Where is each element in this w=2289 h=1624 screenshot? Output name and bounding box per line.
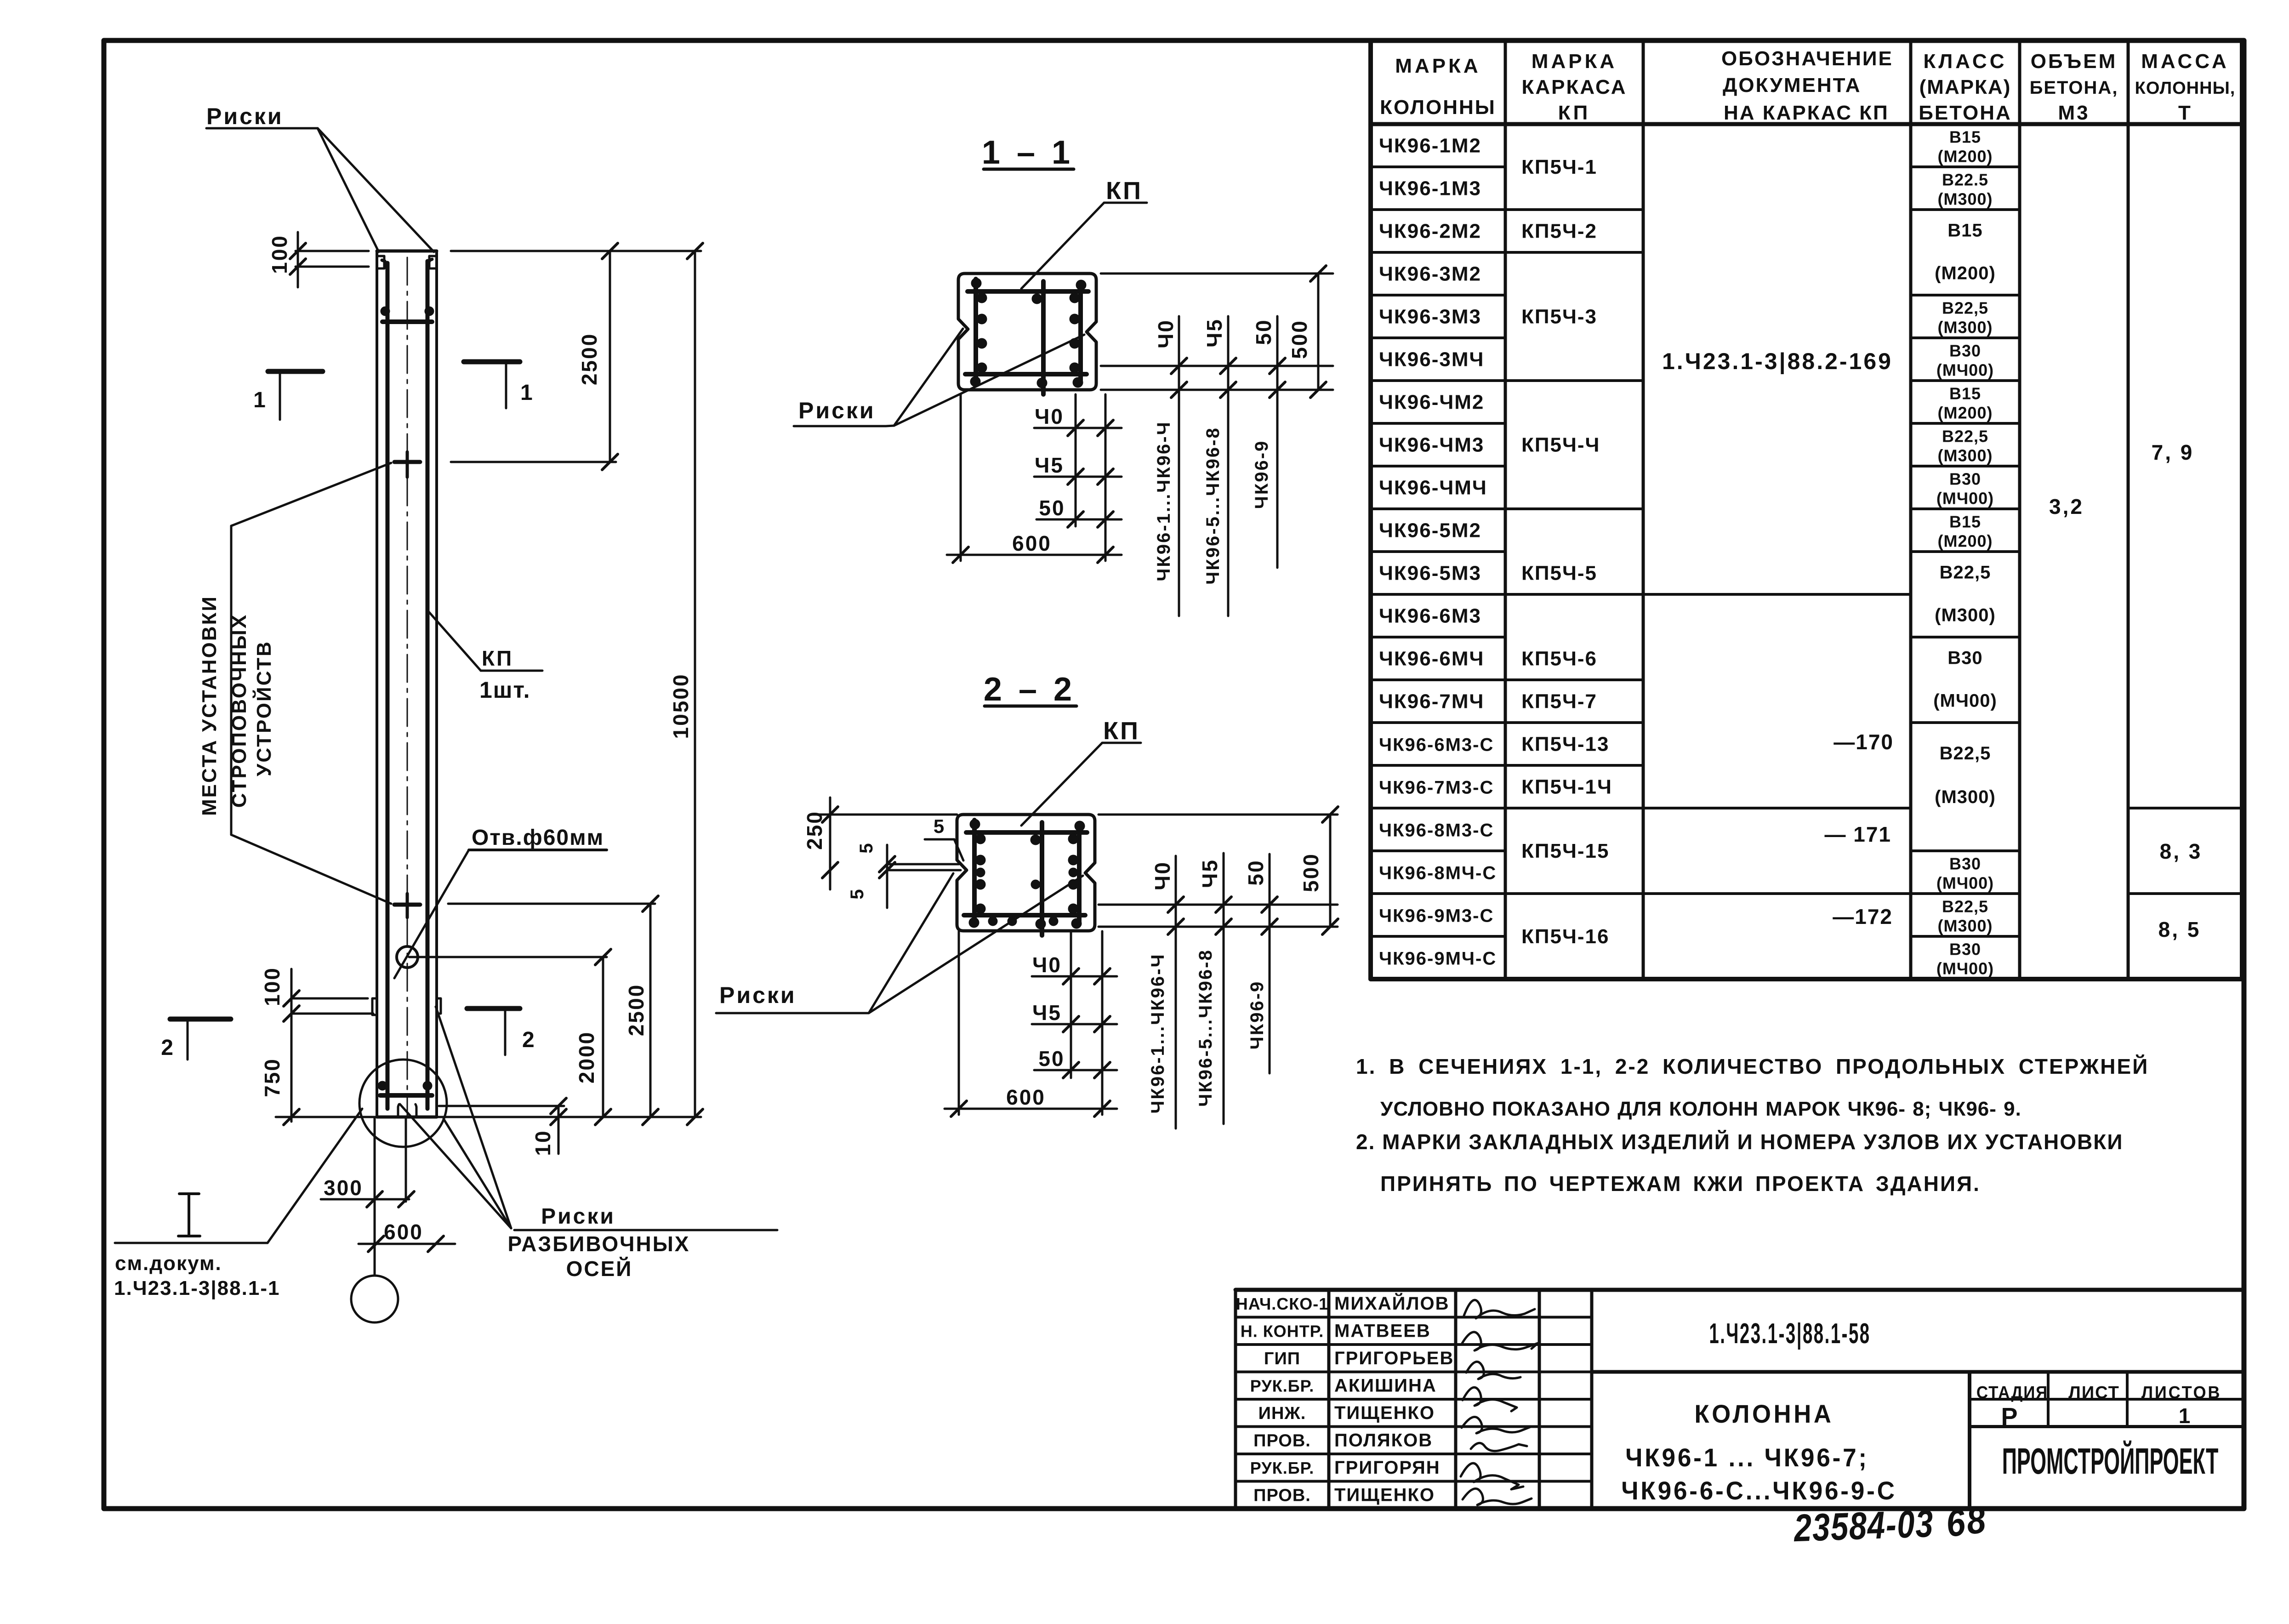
svg-text:ПРОВ.: ПРОВ. xyxy=(1253,1486,1311,1505)
svg-text:(М300): (М300) xyxy=(1937,917,1993,935)
svg-text:КОЛОННЫ,: КОЛОННЫ, xyxy=(2135,79,2236,98)
svg-text:Риски: Риски xyxy=(798,398,876,423)
svg-text:ЧК96-6М3: ЧК96-6М3 xyxy=(1379,605,1481,627)
svg-text:КП5Ч-2: КП5Ч-2 xyxy=(1521,220,1597,243)
svg-text:КП5Ч-1Ч: КП5Ч-1Ч xyxy=(1521,776,1612,798)
svg-text:КАРКАСА: КАРКАСА xyxy=(1522,76,1627,98)
bottom cross bar xyxy=(380,1093,432,1098)
svg-text:МИХАЙЛОВ: МИХАЙЛОВ xyxy=(1334,1293,1449,1314)
svg-text:50: 50 xyxy=(1252,319,1275,345)
svg-text:Риски: Риски xyxy=(206,103,284,129)
svg-text:ЧК96-7М3-С: ЧК96-7М3-С xyxy=(1379,778,1494,798)
svg-text:(М200): (М200) xyxy=(1937,404,1993,422)
dim 2500 upper xyxy=(609,251,611,462)
svg-text:НАЧ.СКО-1: НАЧ.СКО-1 xyxy=(1236,1294,1329,1313)
svg-text:8, 3: 8, 3 xyxy=(2160,839,2203,863)
svg-text:ДОКУМЕНТА: ДОКУМЕНТА xyxy=(1723,74,1862,97)
svg-text:2. МАРКИ ЗАКЛАДНЫХ ИЗДЕЛИЙ: 2. МАРКИ ЗАКЛАДНЫХ ИЗДЕЛИЙ И НОМЕРА УЗЛО… xyxy=(1356,1130,2123,1154)
svg-text:ПРОМСТРОЙПРОЕКТ: ПРОМСТРОЙПРОЕКТ xyxy=(2002,1440,2219,1482)
svg-text:2000: 2000 xyxy=(575,1031,598,1083)
svg-text:ЧК96-5М2: ЧК96-5М2 xyxy=(1379,519,1481,542)
section 1-1 right extension lines xyxy=(1101,273,1333,275)
svg-text:1: 1 xyxy=(253,388,267,412)
section 1-1 bottom extension lines xyxy=(960,394,962,561)
svg-text:50: 50 xyxy=(1039,496,1065,520)
svg-text:(МЧ00): (МЧ00) xyxy=(1936,489,1994,508)
dim 600 s2 xyxy=(945,1108,1117,1110)
svg-text:ЧК96-6МЧ: ЧК96-6МЧ xyxy=(1379,648,1484,670)
dim 45 right s1 xyxy=(1227,316,1230,616)
svg-text:БЕТОНА,: БЕТОНА, xyxy=(2030,78,2118,98)
dim 10 xyxy=(558,1106,560,1154)
svg-text:В15: В15 xyxy=(1947,221,1982,241)
svg-text:10: 10 xyxy=(531,1129,555,1156)
svg-text:Ч0: Ч0 xyxy=(1032,953,1062,977)
svg-text:В22,5: В22,5 xyxy=(1940,743,1991,764)
svg-text:ТИЩЕНКО: ТИЩЕНКО xyxy=(1334,1403,1435,1423)
section 2-2 right extension lines xyxy=(1099,814,1338,816)
svg-text:ЧК96-8М3-С: ЧК96-8М3-С xyxy=(1379,821,1494,841)
dim 45 bottom s1 xyxy=(1034,476,1122,478)
svg-text:ЧК96-ЧМ2: ЧК96-ЧМ2 xyxy=(1379,391,1484,414)
svg-text:КП5Ч-Ч: КП5Ч-Ч xyxy=(1521,434,1600,456)
dim 2000 xyxy=(602,957,604,1117)
svg-text:В15: В15 xyxy=(1949,513,1981,531)
strop device mark lower xyxy=(394,903,420,907)
strop device mark upper xyxy=(394,460,420,464)
dim 50 bottom s1 xyxy=(1036,519,1122,521)
svg-text:КП5Ч-3: КП5Ч-3 xyxy=(1521,306,1597,328)
top riska notches xyxy=(378,256,384,268)
svg-text:Р: Р xyxy=(2001,1403,2018,1430)
dim 2500 lower xyxy=(649,904,652,1117)
title block grid xyxy=(1236,1288,2242,1292)
svg-text:(МЧ00): (МЧ00) xyxy=(1933,691,1997,711)
svg-text:2500: 2500 xyxy=(624,984,648,1036)
svg-text:В22,5: В22,5 xyxy=(1942,299,1988,318)
svg-text:ЧК96-3М2: ЧК96-3М2 xyxy=(1379,263,1481,285)
svg-text:23584-03: 23584-03 xyxy=(1793,1502,1935,1550)
svg-text:ЧК96-5М3: ЧК96-5М3 xyxy=(1379,562,1481,585)
svg-text:500: 500 xyxy=(1299,853,1323,892)
svg-text:2: 2 xyxy=(522,1028,536,1052)
svg-text:(МАРКА): (МАРКА) xyxy=(1919,76,2011,98)
svg-text:В30: В30 xyxy=(1947,648,1982,668)
svg-text:см.докум.: см.докум. xyxy=(115,1252,222,1275)
svg-text:Ч5: Ч5 xyxy=(1198,859,1222,888)
svg-text:1.Ч23.1-3|88.2-169: 1.Ч23.1-3|88.2-169 xyxy=(1662,348,1893,375)
svg-text:5: 5 xyxy=(934,815,945,837)
svg-text:10500: 10500 xyxy=(669,673,693,739)
svg-text:ЧК96-8МЧ-С: ЧК96-8МЧ-С xyxy=(1379,863,1497,883)
section cage 1-1 xyxy=(974,279,978,380)
svg-text:В30: В30 xyxy=(1949,855,1981,873)
svg-text:1.Ч23.1-3|88.1-1: 1.Ч23.1-3|88.1-1 xyxy=(114,1277,280,1300)
svg-text:(М300): (М300) xyxy=(1937,318,1993,337)
svg-text:(МЧ00): (МЧ00) xyxy=(1936,959,1994,978)
svg-text:(М300): (М300) xyxy=(1937,190,1993,209)
svg-text:Риски: Риски xyxy=(719,982,797,1008)
column centerline xyxy=(407,257,408,1117)
hole 60mm xyxy=(397,946,418,968)
svg-text:В15: В15 xyxy=(1949,384,1981,403)
section mark 2 left xyxy=(170,1017,231,1022)
svg-text:В15: В15 xyxy=(1949,128,1981,147)
dim 100 top xyxy=(296,250,369,252)
svg-text:УСТРОЙСТВ: УСТРОЙСТВ xyxy=(252,640,275,776)
svg-text:ЧК96-1...ЧК96-Ч: ЧК96-1...ЧК96-Ч xyxy=(1154,421,1174,581)
svg-text:2500: 2500 xyxy=(577,333,601,385)
svg-text:В22,5: В22,5 xyxy=(1942,427,1988,446)
svg-text:Ч0: Ч0 xyxy=(1154,319,1178,348)
dim 600 s1 xyxy=(947,554,1122,556)
svg-text:СТАДИЯ: СТАДИЯ xyxy=(1976,1383,2048,1402)
section mark 1 right xyxy=(464,359,520,365)
mid riska notch right xyxy=(437,998,441,1014)
section outline 1-1 xyxy=(958,274,1096,390)
svg-text:КП5Ч-6: КП5Ч-6 xyxy=(1521,648,1597,670)
dim 50 bottom s2 xyxy=(1034,1069,1117,1071)
svg-text:КП5Ч-5: КП5Ч-5 xyxy=(1521,562,1597,585)
dim 600 elevation xyxy=(359,1243,455,1245)
svg-text:МАРКА: МАРКА xyxy=(1532,50,1617,73)
svg-text:В22,5: В22,5 xyxy=(1942,897,1988,916)
dim 40 right s1 xyxy=(1178,316,1180,616)
dim 45 bottom s2 xyxy=(1032,1023,1117,1026)
label sm dokum xyxy=(179,1192,199,1195)
svg-text:—170: —170 xyxy=(1833,730,1894,754)
svg-text:ЧК96-6М3-С: ЧК96-6М3-С xyxy=(1379,735,1494,755)
svg-text:750: 750 xyxy=(260,1058,284,1097)
svg-text:ТИЩЕНКО: ТИЩЕНКО xyxy=(1334,1485,1435,1505)
svg-text:КП5Ч-7: КП5Ч-7 xyxy=(1521,690,1597,713)
svg-text:ЧК96-ЧМ3: ЧК96-ЧМ3 xyxy=(1379,434,1484,456)
svg-text:1.Ч23.1-3|88.1-58: 1.Ч23.1-3|88.1-58 xyxy=(1709,1317,1870,1350)
svg-text:ЛИСТОВ: ЛИСТОВ xyxy=(2141,1382,2221,1402)
svg-text:КОЛОННА: КОЛОННА xyxy=(1694,1400,1833,1429)
dim 45 right s2 xyxy=(1223,853,1225,1124)
svg-text:В22.5: В22.5 xyxy=(1942,171,1988,189)
dim 750 xyxy=(284,1109,299,1125)
svg-text:50: 50 xyxy=(1038,1047,1065,1071)
svg-text:ЧК96-5...ЧК96-8: ЧК96-5...ЧК96-8 xyxy=(1196,949,1216,1107)
svg-text:Ч0: Ч0 xyxy=(1035,405,1064,428)
svg-text:(М200): (М200) xyxy=(1937,147,1993,166)
specification table grid xyxy=(1368,40,1373,979)
svg-text:ПРИНЯТЬ ПО ЧЕРТЕЖАМ КЖИ ПРО: ПРИНЯТЬ ПО ЧЕРТЕЖАМ КЖИ ПРОЕКТА ЗДАНИЯ. xyxy=(1380,1172,1981,1196)
svg-text:В30: В30 xyxy=(1949,940,1981,959)
svg-text:Ч5: Ч5 xyxy=(1035,453,1064,477)
reinforcement cage in elevation xyxy=(386,263,390,1109)
svg-text:5: 5 xyxy=(847,888,867,899)
svg-text:50: 50 xyxy=(1244,859,1268,885)
svg-text:7, 9: 7, 9 xyxy=(2152,440,2194,464)
svg-text:РУК.БР.: РУК.БР. xyxy=(1250,1459,1314,1477)
svg-text:КП: КП xyxy=(1558,102,1590,124)
svg-text:МАССА: МАССА xyxy=(2141,50,2229,73)
svg-text:ЧК96-7МЧ: ЧК96-7МЧ xyxy=(1379,690,1484,713)
svg-text:250: 250 xyxy=(803,810,826,850)
svg-text:РАЗБИВОЧНЫХ: РАЗБИВОЧНЫХ xyxy=(508,1232,690,1256)
svg-text:(М200): (М200) xyxy=(1935,263,1996,284)
svg-text:ЧК96-5...ЧК96-8: ЧК96-5...ЧК96-8 xyxy=(1203,427,1223,585)
column elevation outline xyxy=(377,250,437,253)
svg-text:(МЧ00): (МЧ00) xyxy=(1936,874,1994,893)
svg-text:КП: КП xyxy=(1103,717,1140,745)
svg-text:1шт.: 1шт. xyxy=(479,677,530,703)
detail circle I xyxy=(359,1060,447,1147)
svg-text:В30: В30 xyxy=(1949,470,1981,489)
svg-text:ЧК96-3М3: ЧК96-3М3 xyxy=(1379,306,1481,328)
svg-text:ИНЖ.: ИНЖ. xyxy=(1258,1404,1306,1423)
axis line and grid bubble xyxy=(374,1117,376,1276)
dim 40 right s2 xyxy=(1175,856,1177,1128)
svg-text:БЕТОНА: БЕТОНА xyxy=(1919,102,2012,124)
svg-text:600: 600 xyxy=(1006,1085,1046,1109)
dim 500 s2 xyxy=(1329,815,1332,927)
svg-text:(М200): (М200) xyxy=(1937,532,1993,551)
svg-text:600: 600 xyxy=(384,1220,423,1244)
mid riska notch left xyxy=(372,998,377,1015)
svg-text:ЧК96-9: ЧК96-9 xyxy=(1247,980,1267,1050)
svg-text:ЧК96-ЧМЧ: ЧК96-ЧМЧ xyxy=(1379,477,1487,499)
svg-text:8, 5: 8, 5 xyxy=(2158,917,2201,941)
extension lines right xyxy=(451,250,701,252)
svg-text:3,2: 3,2 xyxy=(2049,495,2084,519)
svg-text:2: 2 xyxy=(161,1036,175,1060)
dim 10500 xyxy=(694,251,696,1117)
svg-text:Риски: Риски xyxy=(541,1204,615,1229)
svg-text:68: 68 xyxy=(1944,1498,1990,1545)
svg-text:В30: В30 xyxy=(1949,342,1981,360)
svg-text:Ч5: Ч5 xyxy=(1032,1001,1062,1025)
svg-text:МАТВЕЕВ: МАТВЕЕВ xyxy=(1334,1321,1431,1341)
svg-text:—172: —172 xyxy=(1833,905,1893,929)
svg-text:Т: Т xyxy=(2178,102,2192,124)
svg-text:ГИП: ГИП xyxy=(1264,1349,1300,1368)
section 2-2 bottom extension lines xyxy=(958,931,960,1115)
svg-text:КЛАСС: КЛАСС xyxy=(1924,50,2007,73)
svg-text:ПРОВ.: ПРОВ. xyxy=(1253,1431,1311,1450)
dim 500 s1 xyxy=(1317,274,1320,390)
bottom groove dashes xyxy=(398,1102,403,1116)
section longitudinal bars 2-2 xyxy=(975,834,985,844)
section mark 1 left xyxy=(268,369,323,374)
section outline 2-2 xyxy=(957,815,1095,931)
dim 100 lower xyxy=(292,997,368,1000)
svg-text:Ч5: Ч5 xyxy=(1202,318,1226,348)
svg-text:ЧК96-6-С...ЧК96-9-С: ЧК96-6-С...ЧК96-9-С xyxy=(1621,1476,1896,1505)
svg-text:ОБЪЕМ: ОБЪЕМ xyxy=(2031,50,2117,73)
dim 40 bottom s1 xyxy=(1034,427,1122,429)
svg-text:ПОЛЯКОВ: ПОЛЯКОВ xyxy=(1334,1430,1433,1450)
dim 40 bottom s2 xyxy=(1032,975,1117,978)
section longitudinal bars 1-1 xyxy=(977,293,987,303)
dim 50 right s2 xyxy=(1269,854,1271,1073)
svg-text:КП: КП xyxy=(482,646,513,670)
dim 250 section 2-2 xyxy=(814,814,957,816)
svg-text:ЧК96-3МЧ: ЧК96-3МЧ xyxy=(1379,348,1484,371)
svg-text:КП: КП xyxy=(1106,177,1143,205)
svg-text:ЧК96-9М3-С: ЧК96-9М3-С xyxy=(1379,906,1494,926)
svg-text:В22,5: В22,5 xyxy=(1940,563,1991,583)
svg-text:ЧК96-2М2: ЧК96-2М2 xyxy=(1379,220,1481,243)
svg-text:РУК.БР.: РУК.БР. xyxy=(1250,1376,1314,1395)
svg-text:— 171: — 171 xyxy=(1824,822,1891,846)
svg-text:ЧК96-9: ЧК96-9 xyxy=(1252,440,1272,509)
svg-text:ЧК96-9МЧ-С: ЧК96-9МЧ-С xyxy=(1379,949,1497,969)
svg-text:КОЛОННЫ: КОЛОННЫ xyxy=(1380,96,1496,119)
dim 50 right s1 xyxy=(1276,316,1279,568)
svg-text:ГРИГОРЯН: ГРИГОРЯН xyxy=(1334,1458,1441,1478)
svg-text:МЕСТА УСТАНОВКИ: МЕСТА УСТАНОВКИ xyxy=(198,595,221,816)
centerline extension below column xyxy=(405,1117,407,1202)
svg-text:1: 1 xyxy=(2179,1404,2191,1428)
svg-text:300: 300 xyxy=(324,1176,363,1200)
svg-text:ЧК96-1...ЧК96-Ч: ЧК96-1...ЧК96-Ч xyxy=(1148,953,1168,1113)
svg-text:ЧК96-1 ... ЧК96-7;: ЧК96-1 ... ЧК96-7; xyxy=(1625,1443,1869,1472)
dim 300 xyxy=(321,1198,409,1201)
svg-text:(М300): (М300) xyxy=(1937,446,1993,465)
svg-text:(М300): (М300) xyxy=(1935,787,1996,807)
svg-text:100: 100 xyxy=(260,967,284,1006)
svg-text:100: 100 xyxy=(268,234,291,274)
svg-text:КП5Ч-13: КП5Ч-13 xyxy=(1521,733,1609,756)
svg-text:АКИШИНА: АКИШИНА xyxy=(1334,1375,1437,1396)
svg-text:Н. КОНТР.: Н. КОНТР. xyxy=(1241,1322,1324,1340)
svg-text:600: 600 xyxy=(1012,531,1052,555)
svg-text:Отв.ф60мм: Отв.ф60мм xyxy=(472,826,604,850)
svg-text:МАРКА: МАРКА xyxy=(1395,55,1480,77)
signatures xyxy=(1464,1300,1535,1318)
svg-text:1 – 1: 1 – 1 xyxy=(982,134,1074,171)
svg-text:М3: М3 xyxy=(2058,102,2090,124)
svg-text:КП5Ч-15: КП5Ч-15 xyxy=(1521,840,1609,862)
svg-text:ЧК96-1М3: ЧК96-1М3 xyxy=(1379,177,1481,200)
svg-text:1: 1 xyxy=(520,381,534,405)
svg-text:(МЧ00): (МЧ00) xyxy=(1936,361,1994,380)
svg-text:ОБОЗНАЧЕНИЕ: ОБОЗНАЧЕНИЕ xyxy=(1721,47,1893,70)
svg-text:НА КАРКАС КП: НА КАРКАС КП xyxy=(1724,102,1889,124)
svg-text:Ч0: Ч0 xyxy=(1150,861,1174,890)
svg-text:1. В СЕЧЕНИЯХ 1-1, 2-2 КОЛИЧ: 1. В СЕЧЕНИЯХ 1-1, 2-2 КОЛИЧЕСТВО ПРОДОЛ… xyxy=(1356,1054,2149,1078)
svg-text:(М300): (М300) xyxy=(1935,605,1996,626)
section mark 2 right xyxy=(467,1006,520,1011)
dims 5 section 2-2 xyxy=(887,863,959,866)
top cross bar xyxy=(382,319,432,324)
svg-text:5: 5 xyxy=(856,842,877,853)
svg-text:УСЛОВНО ПОКАЗАНО ДЛЯ КОЛОНН МА: УСЛОВНО ПОКАЗАНО ДЛЯ КОЛОНН МАРОК ЧК96- … xyxy=(1380,1098,2021,1120)
svg-text:2 – 2: 2 – 2 xyxy=(984,671,1076,708)
svg-text:ГРИГОРЬЕВ: ГРИГОРЬЕВ xyxy=(1334,1348,1454,1368)
svg-text:КП5Ч-16: КП5Ч-16 xyxy=(1521,925,1609,948)
svg-text:ОСЕЙ: ОСЕЙ xyxy=(566,1257,633,1281)
svg-text:КП5Ч-1: КП5Ч-1 xyxy=(1521,156,1597,178)
svg-text:ЛИСТ: ЛИСТ xyxy=(2068,1383,2120,1402)
section cage 2-2 xyxy=(972,820,977,921)
svg-text:ЧК96-1М2: ЧК96-1М2 xyxy=(1379,135,1481,157)
svg-text:500: 500 xyxy=(1287,319,1311,359)
